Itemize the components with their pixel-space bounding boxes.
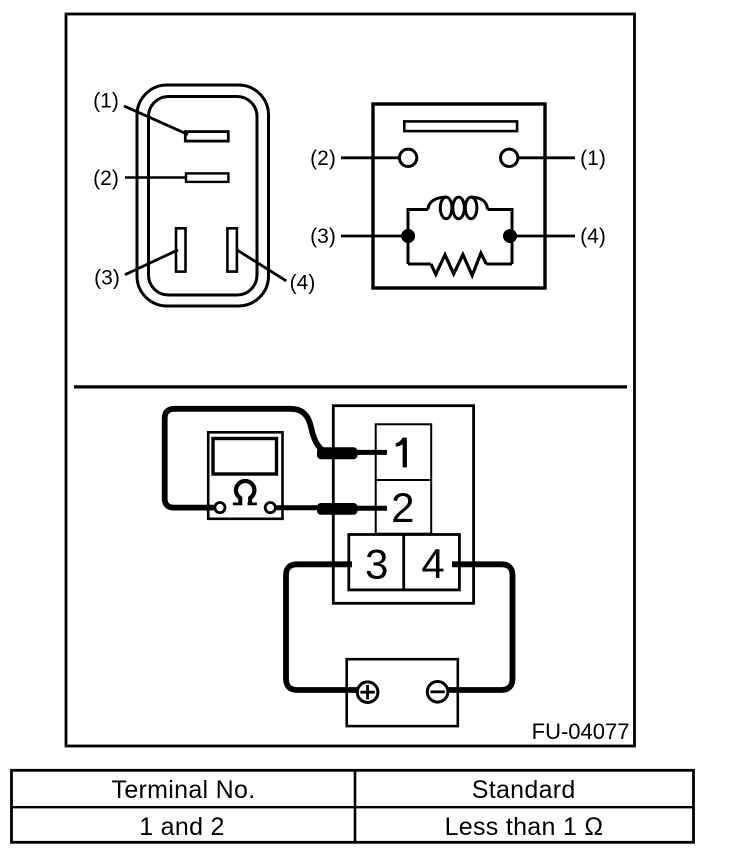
svg-text:Standard: Standard (472, 776, 576, 804)
coil-resistor loop wires (408, 210, 512, 265)
battery box (347, 659, 458, 726)
probe tip 2 (317, 503, 358, 515)
svg-text:(4): (4) (580, 225, 606, 248)
ohmmeter body (208, 432, 282, 519)
junction dot node 3 (401, 229, 415, 243)
svg-text:(3): (3) (94, 267, 120, 290)
terminal slot pin 1 (185, 132, 228, 142)
divider line (74, 385, 627, 388)
lead line (4) (517, 235, 576, 238)
lead line (1) (518, 156, 575, 159)
battery minus terminal (427, 682, 448, 703)
svg-text:4: 4 (421, 540, 444, 587)
coil L1 loops (440, 197, 452, 219)
junction dot node 4 (503, 229, 517, 243)
relay schematic box (373, 104, 545, 288)
probe 2 lead into cell 2 (355, 506, 387, 511)
terminal digit 1 (396, 438, 407, 468)
svg-text:2: 2 (391, 484, 414, 531)
svg-text:3: 3 (365, 540, 388, 587)
svg-text:1 and 2: 1 and 2 (139, 813, 225, 841)
svg-text:FU-04077: FU-04077 (532, 719, 630, 744)
svg-text:(2): (2) (310, 147, 336, 170)
probe 1 lead into cell 1 (355, 450, 387, 455)
leader line to pin 4 (237, 250, 286, 281)
ohmmeter display (213, 439, 277, 475)
svg-text:(4): (4) (290, 272, 316, 295)
meter lead wire to terminal 2 (276, 505, 320, 510)
wire terminal 4 to battery minus (448, 564, 512, 690)
cell divider 3/4 (402, 535, 405, 590)
table outer border (12, 770, 694, 842)
relay connector body inner outline (149, 97, 258, 296)
resistor R1 zigzag (431, 253, 486, 275)
svg-text:(3): (3) (310, 225, 336, 248)
cells 3-4 row (349, 535, 460, 590)
test connector outline (333, 406, 473, 604)
terminal circle (2) (399, 149, 416, 166)
relay connector body outer outline (137, 85, 269, 306)
terminal slot pin 3 (176, 228, 186, 271)
schematic key slot (404, 121, 517, 131)
probe tip 1 (317, 447, 358, 459)
lead line (3) (341, 235, 402, 238)
table row divider (12, 806, 694, 808)
terminal slot pin 4 (227, 228, 237, 271)
terminal circle (1) (501, 149, 518, 166)
svg-text:Terminal No.: Terminal No. (112, 776, 256, 804)
lead line (2) (341, 156, 399, 159)
probe jack left (215, 503, 225, 513)
svg-text:Less than 1 Ω: Less than 1 Ω (445, 813, 604, 841)
leader line to pin 2 (125, 176, 187, 178)
cell divider 1/2 (376, 479, 432, 481)
terminal slot pin 2 (186, 173, 228, 182)
leader line to pin 1 (124, 106, 188, 135)
coil L1 entry humps (428, 197, 488, 209)
cells 1-2 column (376, 424, 432, 533)
table column divider (354, 770, 357, 842)
leader line to pin 3 (125, 250, 178, 275)
svg-text:(2): (2) (93, 167, 119, 190)
svg-text:(1): (1) (93, 90, 119, 113)
wire terminal 3 to battery plus (286, 564, 357, 690)
outer figure frame (66, 14, 635, 746)
svg-text:(1): (1) (580, 147, 606, 170)
ohmmeter omega symbol (236, 481, 254, 498)
battery plus terminal (357, 682, 378, 703)
probe jack right (265, 503, 275, 513)
meter lead wire to terminal 1 (165, 409, 325, 508)
